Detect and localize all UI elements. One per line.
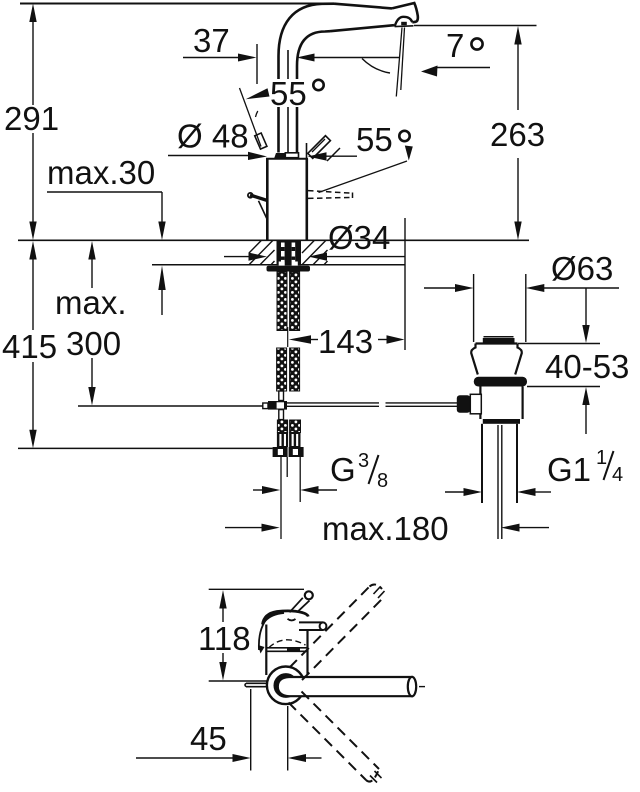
hose connector right xyxy=(289,447,304,457)
swing arc indicator xyxy=(259,612,274,650)
hidden dome arc dashed xyxy=(269,640,306,648)
svg-text:3: 3 xyxy=(358,450,369,472)
pop-up waste plug cap xyxy=(483,337,515,344)
flex hose lower right xyxy=(290,348,300,391)
body front view xyxy=(266,625,307,676)
flex hose upper right xyxy=(290,272,300,331)
spout tube axis tick xyxy=(419,686,425,688)
drain extension line right xyxy=(525,274,527,342)
hose end crimp right xyxy=(290,420,301,433)
svg-text:1: 1 xyxy=(596,447,607,469)
svg-text:4: 4 xyxy=(612,464,623,486)
pop-up waste o-ring xyxy=(474,377,527,387)
pop-up rod knob xyxy=(457,394,482,414)
swivel ring inner black ring xyxy=(276,676,295,695)
pop-up rod horizontal left xyxy=(78,405,263,407)
counter hatching left xyxy=(249,240,275,264)
flange top reference line xyxy=(518,343,600,345)
dimension max.30 xyxy=(47,154,166,315)
dimension diameter 34 xyxy=(224,219,405,261)
flex hose lower left xyxy=(277,348,287,391)
dimension 37 xyxy=(183,22,399,84)
reference line spout top (291 datum) xyxy=(20,3,334,5)
spout tip face xyxy=(392,3,418,22)
svg-text:max.: max. xyxy=(55,284,127,321)
svg-text:300: 300 xyxy=(66,325,121,362)
o-ring bottom reference line xyxy=(527,386,600,388)
hose studs xyxy=(281,457,300,539)
svg-text:143: 143 xyxy=(318,323,373,360)
svg-text:max.180: max.180 xyxy=(322,510,449,547)
dome notch xyxy=(288,619,296,621)
dimension 40-53 xyxy=(545,289,629,435)
handle dome front view xyxy=(263,611,309,625)
hose nut left xyxy=(277,433,288,448)
drain extension line left xyxy=(473,274,475,342)
flex hose upper left xyxy=(277,272,287,331)
dimension G1 1/4 xyxy=(445,447,623,496)
pop-up rod cross fitting xyxy=(263,401,287,420)
dimension G3/8 xyxy=(253,450,388,494)
dimension 118 xyxy=(198,590,251,681)
svg-text:G1: G1 xyxy=(547,451,591,488)
dimension 45 xyxy=(136,720,322,762)
dimension 143 xyxy=(289,218,405,360)
drain tailpipe xyxy=(482,424,517,539)
pop-up waste body xyxy=(480,387,522,420)
hose nut right xyxy=(289,433,300,448)
svg-text:45: 45 xyxy=(190,720,227,757)
svg-text:55: 55 xyxy=(356,121,393,158)
extension line 45 right xyxy=(287,706,289,771)
lever stem tilted right position xyxy=(307,136,331,159)
spout tube front view xyxy=(278,677,416,696)
svg-text:55: 55 xyxy=(270,75,307,112)
faucet body xyxy=(266,159,308,240)
aerator dome xyxy=(395,17,414,27)
mounting washer nut xyxy=(267,266,311,272)
cartridge cap xyxy=(274,153,299,159)
pop-up rod horizontal to drain xyxy=(287,403,458,406)
dimension diameter 63 xyxy=(424,250,619,292)
dimension max.180 xyxy=(225,510,549,547)
counter top line xyxy=(18,239,529,241)
swing arc arrowhead xyxy=(258,645,265,654)
svg-text:max.30: max.30 xyxy=(47,154,155,191)
dashed upper end ticks xyxy=(374,587,385,598)
dimension 263 xyxy=(490,26,545,240)
svg-text:118: 118 xyxy=(198,620,251,657)
lever stem tilted left position xyxy=(255,133,267,149)
dashed spout position upper xyxy=(290,585,383,681)
bottom reference line lower figure xyxy=(209,680,268,682)
dimension 55 degrees right xyxy=(308,121,413,193)
spout cone lines front view xyxy=(290,598,310,613)
dimension 415 xyxy=(2,241,57,448)
hose end crimp left xyxy=(277,420,287,433)
svg-text:291: 291 xyxy=(4,100,59,137)
spout tip circle front view xyxy=(305,591,313,599)
handle lever closed xyxy=(248,193,267,220)
dashed lower end ticks xyxy=(370,771,382,783)
svg-text:37: 37 xyxy=(193,22,230,59)
svg-text:415: 415 xyxy=(2,328,57,365)
swivel ring outer circle xyxy=(267,667,305,705)
pop-up waste flange xyxy=(471,344,522,375)
svg-text:263: 263 xyxy=(490,116,545,153)
dimension 55 degrees upper xyxy=(240,75,324,147)
spout curved tube xyxy=(279,4,395,153)
counter hatching right xyxy=(302,240,328,264)
svg-text:8: 8 xyxy=(377,470,388,492)
dimension diameter 48 xyxy=(168,118,340,162)
water stream lines xyxy=(396,28,404,97)
handle extended dashed position xyxy=(308,191,352,199)
svg-text:40-53: 40-53 xyxy=(545,348,629,385)
hose end reference line xyxy=(18,447,273,449)
dimension 291 xyxy=(4,4,59,241)
hose axis line xyxy=(287,327,289,347)
lever stub front view xyxy=(299,622,326,630)
threaded shank xyxy=(277,240,302,265)
drain coupling nut xyxy=(483,419,520,424)
svg-text:Ø63: Ø63 xyxy=(551,250,613,287)
side rod front view xyxy=(245,683,268,686)
svg-text:G: G xyxy=(330,451,356,488)
dashed spout position lower xyxy=(289,692,380,782)
pop-up rod vertical xyxy=(279,391,284,401)
svg-text:Ø 48: Ø 48 xyxy=(177,118,249,155)
counter bottom line xyxy=(152,264,405,266)
dimension max.300 xyxy=(55,241,127,406)
hose connector left xyxy=(273,447,288,457)
top reference line lower figure xyxy=(209,588,304,590)
extension line 45 left xyxy=(250,689,252,771)
svg-text:Ø34: Ø34 xyxy=(328,219,390,256)
handle dashed end cap xyxy=(352,193,354,199)
dimension 7 degrees xyxy=(362,26,537,77)
body joint lines xyxy=(266,648,307,652)
svg-text:7: 7 xyxy=(446,27,464,64)
